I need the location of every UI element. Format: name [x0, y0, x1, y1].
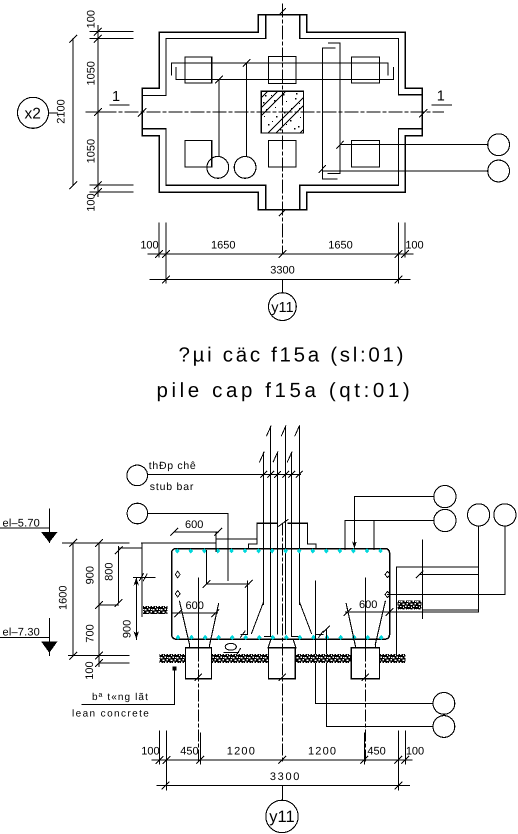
- pile center (section): [269, 648, 296, 679]
- bottom dimension chain line (plan): [148, 253, 413, 255]
- overall dimension line 3300 (plan): [150, 279, 410, 281]
- svg-text:?µi cäc f15a (sl:01): ?µi cäc f15a (sl:01): [179, 344, 407, 367]
- pile dowel trumpet right: [375, 601, 385, 644]
- leader F horizontal to bottom-right circle: [326, 726, 433, 728]
- svg-text:100: 100: [141, 746, 159, 758]
- level el-7.30 triangle: [41, 641, 58, 653]
- top rebar dots (cyan): [175, 548, 383, 553]
- leader A tick on bar2: [216, 76, 223, 83]
- svg-text:100: 100: [86, 10, 98, 28]
- svg-text:y11: y11: [271, 300, 293, 316]
- ground hatch strip (left): [143, 606, 168, 614]
- in-cap dim (leader 2 target): [205, 550, 207, 584]
- leader D line right: [323, 170, 488, 172]
- pile dowel trumpet left: [180, 601, 190, 644]
- level el-7.30 vertical: [49, 619, 51, 656]
- svg-text:700: 700: [85, 624, 97, 642]
- leader B tick on bar1: [243, 59, 250, 66]
- callout circle C (section right): [468, 504, 490, 526]
- pile square top-right (plan): [351, 57, 379, 83]
- column (hatched) in plan center: [261, 91, 303, 133]
- grid bubble x2: [18, 97, 49, 128]
- overall 3300 (section): [157, 785, 410, 787]
- leader D tick on vertical band: [319, 165, 326, 172]
- level el-7.30 underline: [0, 637, 49, 639]
- bottom-right callout circle F: [433, 716, 455, 738]
- svg-text:x2: x2: [25, 106, 41, 123]
- stub bar label circle: [127, 465, 148, 486]
- svg-text:pile cap f15a (qt:01): pile cap f15a (qt:01): [157, 379, 414, 402]
- svg-text:2100: 2100: [55, 99, 67, 123]
- pile centerlines (dash-dot): [198, 578, 200, 650]
- callout circle A (plan): [207, 157, 229, 179]
- svg-text:600: 600: [359, 599, 377, 611]
- svg-text:1600: 1600: [58, 585, 70, 609]
- section mark 1 left: tick at tab: [138, 109, 146, 117]
- leader E vertical: [325, 629, 327, 727]
- right side verticals: [396, 567, 398, 655]
- svg-text:1200: 1200: [227, 746, 256, 758]
- lean concrete strip segments: [159, 654, 185, 663]
- stub bar 3 (tall): [299, 426, 301, 604]
- callout 2 leader: [148, 513, 228, 515]
- centerline tick top tab: [279, 9, 285, 15]
- bottom extension lines (plan): [158, 223, 160, 257]
- vertical rebar bar right (plan): [328, 43, 340, 174]
- svg-text:800: 800: [104, 563, 116, 581]
- svg-text:900: 900: [85, 566, 97, 584]
- outer bar left with foot arrow: [247, 581, 249, 635]
- leader C line right: [340, 144, 488, 146]
- right top horizontal: [397, 566, 479, 568]
- grid bubble y11 (plan): [281, 280, 283, 293]
- svg-text:3300: 3300: [270, 771, 301, 783]
- grid bubble y11 (section): [281, 786, 283, 801]
- level el-5.70 triangle: [41, 532, 58, 543]
- horizontal rebar bar 2 (plan band bottom line with end hooks): [176, 67, 393, 79]
- stub bar 5 (short): [277, 452, 279, 634]
- svg-text:1050: 1050: [86, 139, 98, 163]
- svg-text:el–7.30: el–7.30: [3, 627, 41, 639]
- svg-text:100: 100: [405, 240, 423, 252]
- svg-text:3300: 3300: [270, 265, 294, 277]
- extension lines (section left): [99, 604, 119, 606]
- svg-text:1: 1: [112, 89, 120, 105]
- section a marker (ellipse): [225, 643, 236, 650]
- leader E horizontal to bottom-right circle: [316, 702, 434, 704]
- svg-text:stub bar: stub bar: [150, 481, 194, 493]
- svg-text:1650: 1650: [328, 240, 352, 252]
- ticks where leader crosses bars: [261, 471, 302, 477]
- stub bar 4 (short): [263, 452, 265, 604]
- dimension 1600 (section left): [72, 543, 74, 656]
- callout circle A (section top right): [434, 486, 456, 508]
- ground edge vertical (left): [141, 543, 143, 617]
- leader C (right): [420, 573, 479, 575]
- level el-5.70 underline: [0, 527, 49, 529]
- pile square top-left (plan): [185, 57, 212, 83]
- leader D (right): [388, 594, 505, 596]
- vertical centerline (plan): [281, 4, 283, 254]
- svg-text:1050: 1050: [86, 61, 98, 85]
- svg-text:100: 100: [86, 193, 98, 211]
- pile cap inner outline (plan): [143, 15, 421, 209]
- pile square bottom-left (plan): [185, 141, 212, 167]
- centerline tick bottom tab: [279, 210, 285, 216]
- stub bar label leader: [148, 473, 301, 475]
- svg-text:600: 600: [186, 600, 204, 612]
- section mark 1 right: underline: [432, 104, 452, 106]
- svg-text:1: 1: [437, 89, 445, 105]
- dimension chain 900/700/100 (section left): [98, 543, 100, 667]
- bottom dimension chain (section): [152, 759, 412, 761]
- pile dowel trumpet center: [268, 639, 271, 648]
- kicker top line with break: [257, 522, 278, 524]
- pile cap body (section): [172, 549, 390, 640]
- bottom-right callout circle E: [433, 693, 455, 715]
- stub bar 1 (tall): [270, 426, 272, 636]
- svg-text:450: 450: [180, 746, 198, 758]
- pile left (section): [186, 648, 212, 679]
- pile bottom ticks: [195, 674, 202, 681]
- pile right (section): [351, 648, 379, 679]
- horizontal rebar bar 1 (plan band top line with end hooks): [172, 63, 389, 75]
- ground line with break (left): [134, 577, 156, 579]
- pile square bottom-right (plan): [351, 141, 379, 167]
- svg-text:bª t«ng lãt: bª t«ng lãt: [92, 692, 149, 703]
- stub bar 2 (tall): [285, 426, 287, 634]
- level el-5.70 vertical: [49, 509, 51, 543]
- callout circle C (plan right): [488, 134, 510, 156]
- dimension 800 (section left): [118, 546, 120, 603]
- horizontal centerline (plan): [103, 111, 444, 113]
- stub bar 6 (short): [291, 452, 293, 636]
- svg-text:600: 600: [185, 519, 203, 531]
- pile square bottom-center (plan): [269, 140, 297, 167]
- dimension 900 embed (section left): [135, 578, 137, 640]
- callout circle B (plan): [234, 157, 256, 179]
- strip bottom extension (right): [422, 609, 478, 611]
- callout circle D (section right): [494, 504, 516, 526]
- stub bar splay feet: [252, 602, 264, 634]
- left dimension chain line (plan): [97, 26, 99, 197]
- column centerline (section, dash-dot): [281, 524, 283, 762]
- bottom rebar dots (cyan): [176, 635, 384, 640]
- svg-text:1200: 1200: [308, 746, 337, 758]
- column kicker above cap: [256, 523, 258, 544]
- bottom extension lines (section): [159, 731, 161, 764]
- pile square top-center (plan): [269, 57, 297, 84]
- leader B (section): [345, 520, 434, 522]
- leader A line down: [218, 80, 220, 157]
- svg-text:1650: 1650: [211, 240, 235, 252]
- vertical rebar bar left (plan): [323, 48, 337, 179]
- side bar diamonds (white): [175, 571, 390, 598]
- leader B line down: [246, 63, 248, 157]
- leader C tick on vertical band: [337, 141, 344, 148]
- callout circle 2 (left): [127, 503, 148, 524]
- svg-text:thÐp chê: thÐp chê: [149, 460, 197, 472]
- callout circle B (section top right): [434, 509, 456, 531]
- extension lines (plan left): [90, 31, 133, 33]
- pile cap outer outline (plan): [142, 15, 422, 210]
- callout circle D (plan right): [488, 160, 510, 182]
- svg-text:900: 900: [122, 620, 134, 638]
- section mark 1 left: underline: [110, 104, 129, 106]
- ground hatch strip (right): [398, 601, 422, 610]
- outer bar right with foot arrow (continues as leader to circle F): [315, 581, 317, 703]
- section mark 1 right: tick at tab: [419, 109, 427, 117]
- svg-text:100: 100: [84, 661, 96, 679]
- left dimension line 2100 (plan): [72, 39, 74, 186]
- svg-text:lean concrete: lean concrete: [72, 709, 150, 720]
- grid bubble x2 leader: [49, 112, 58, 114]
- svg-text:450: 450: [367, 746, 385, 758]
- level line extension at el-5.70: [63, 542, 129, 544]
- svg-text:y11: y11: [269, 808, 294, 826]
- svg-text:el–5.70: el–5.70: [3, 517, 41, 529]
- svg-text:100: 100: [140, 240, 158, 252]
- svg-text:100: 100: [406, 746, 424, 758]
- leader A (section): [354, 496, 433, 498]
